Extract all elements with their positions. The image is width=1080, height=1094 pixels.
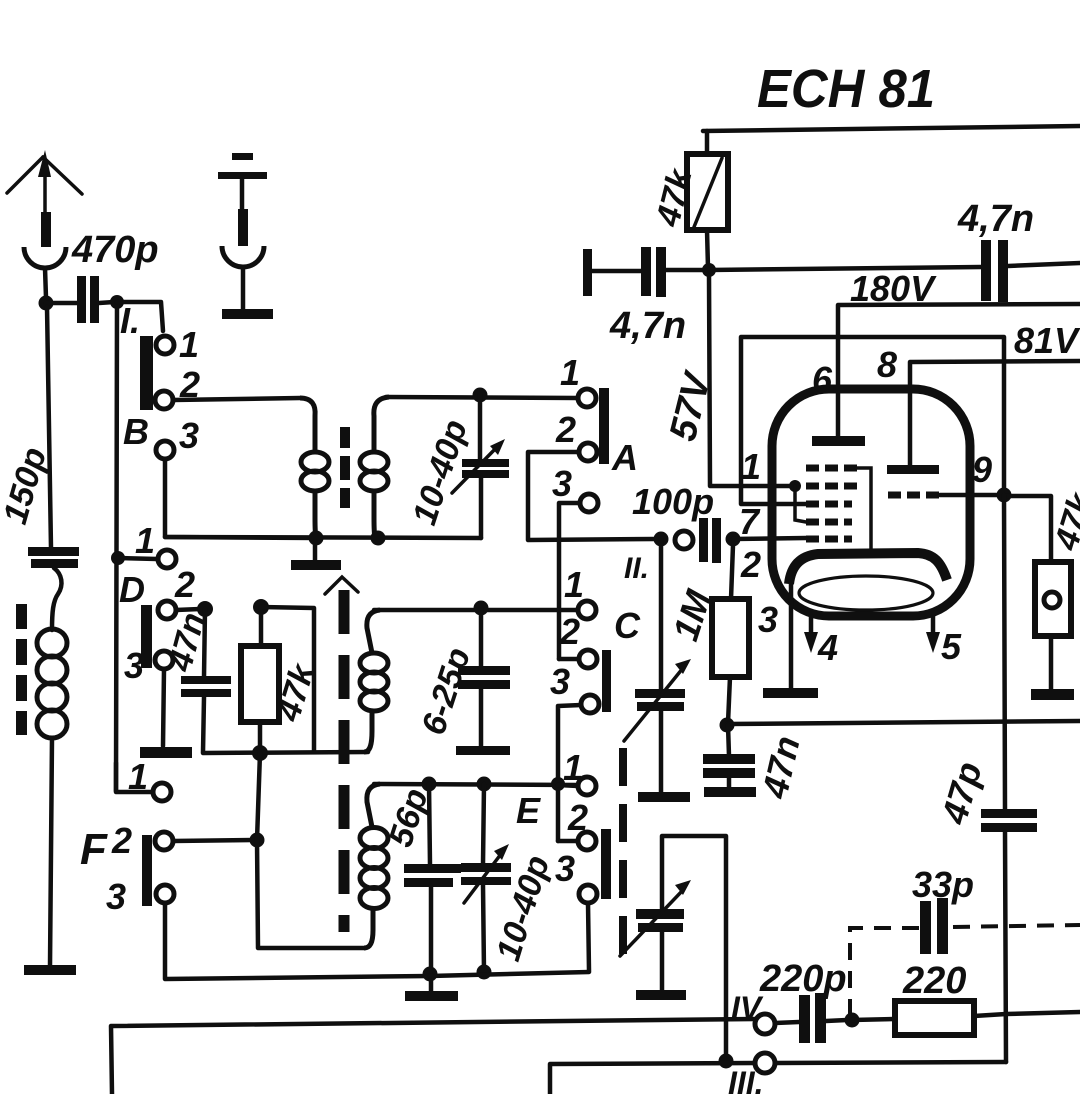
wire oscillator coil top [374,608,578,613]
wire D3 to ground [163,669,164,746]
switch contact E-2 [578,832,596,850]
tube grid g2 row [806,519,852,526]
inductor oscillator coil L2 [360,610,388,752]
capacitor 220p [775,993,847,1043]
resistor 47k (anode) [649,131,728,268]
wire B3 down to ground rail [165,459,316,538]
tube ECH81 envelope [772,389,970,616]
capacitor 47n (band filter) [161,609,231,752]
resistor 220 [852,960,1006,1035]
node D1 junction [111,551,125,565]
capacitor 56p [381,777,461,973]
svg-text:100p: 100p [632,481,714,522]
svg-text:6: 6 [812,359,833,400]
capacitor 4,7n (right) [957,198,1034,302]
terminal circle IV [755,1014,775,1034]
svg-text:2: 2 [555,409,576,450]
svg-text:3: 3 [179,415,199,456]
wire node to 4,7n right [709,267,981,270]
svg-text:D: D [119,569,145,610]
wire output right [1006,1012,1080,1014]
gang dashed line 1 [339,590,350,932]
wire A3 down to C2 [559,503,580,659]
trimmer capacitor 10-40p (band I) [405,395,509,538]
wire T1 bottom rail [165,537,481,538]
svg-text:8: 8 [877,344,897,385]
resistor 1M [665,584,749,723]
ground D3 [140,747,192,758]
wire III to output [775,1062,1006,1063]
capacitor 470p [71,229,159,323]
svg-text:4,7n: 4,7n [957,198,1034,240]
gang line arrow [325,577,358,594]
svg-text:7: 7 [739,501,761,542]
node T1 secondary bottom [371,531,386,546]
switch contact B-2 [155,391,173,409]
tube triode grid pin 9 [888,492,1004,499]
wire common to E3 [430,972,589,976]
node trimmer top [473,388,488,403]
node gang II top [654,532,669,547]
node T1 primary bottom [309,531,324,546]
node main junction [110,295,124,309]
wire III line [550,1063,755,1094]
wire E1 stub [558,785,578,786]
wire 1M top [731,545,733,599]
capacitor 4,7n (left) [609,247,686,347]
wire junction to D1 [118,558,157,559]
svg-text:220: 220 [902,960,966,1002]
gang dashed line 2 [619,748,627,955]
switch contact A-2 [579,443,597,461]
switch contact F-1 [153,783,171,801]
svg-text:ECH 81: ECH 81 [757,59,935,119]
capacitor 47n (AGC) [703,725,808,803]
heater pin 5 arrow [926,616,940,653]
node 1M bottom [720,718,735,733]
node 47n top [197,601,213,617]
switch contact A-3 [580,494,598,512]
wire D2 to 47n node [176,609,200,610]
switch contact F-3 [156,885,174,903]
switch contact D-2 [158,601,176,619]
svg-text:2: 2 [740,544,761,585]
tube grid g4 row [806,483,858,490]
wire F2 to oscillator rail [173,840,253,841]
inductor padder coil L3 [360,784,388,948]
node pin1 grid [789,480,801,492]
node pin 9 junction [997,488,1012,503]
switch A wiper bar [599,388,609,464]
svg-text:470p: 470p [71,229,159,271]
node 220p out [845,1013,860,1028]
svg-text:220p: 220p [759,958,847,1000]
antenna symbol [7,150,82,250]
svg-text:1: 1 [135,520,155,561]
wire F3 down to common rail [165,903,430,979]
wire B2 to transformer primary [173,398,300,400]
svg-text:2: 2 [559,611,580,652]
wire triode grid loop [741,337,1004,504]
switch contact B-3 [156,441,174,459]
wire padder coil top [374,784,578,785]
svg-text:2: 2 [174,564,195,605]
resistor 47k (triode grid) [1004,487,1080,700]
svg-text:1: 1 [564,564,584,605]
wire junction to 470p [46,301,77,306]
transformer T1 primary coil [300,398,329,538]
switch contact A-1 [578,389,596,407]
wire gang II branch [659,539,664,690]
wire 180V supply [838,304,1080,436]
svg-text:1: 1 [741,446,761,487]
terminal circle 100p input [675,531,693,549]
node E branch [551,777,565,791]
tube heptode anode pin 6 [812,359,865,446]
wire 4,7n right output [1008,263,1080,266]
svg-text:4: 4 [817,627,838,668]
capacitor 150p [0,307,79,568]
wire terminal to 4,7n [592,269,641,274]
svg-text:F: F [80,825,108,874]
switch contact C-3 [581,695,599,713]
svg-text:3: 3 [552,463,572,504]
wire 100p to grid g1 [733,538,806,539]
resistor 47k (osc grid) [241,607,323,751]
svg-text:9: 9 [972,449,992,490]
wire rail to coil3 bottom [257,753,365,948]
wire bottom long to IV [111,1019,755,1094]
node 56p bottom [423,967,438,982]
wire main left vertical [116,302,117,791]
terminal circle III [755,1053,775,1073]
wire g2-g4 strap [795,486,806,522]
inductor antenna coil [37,629,67,738]
tube heater [799,576,933,610]
svg-text:81V: 81V [1014,320,1080,361]
wire coil to ground [50,738,52,966]
tube triode anode pin 8 [877,344,939,474]
node anode junction [702,263,716,277]
wire A2 to oscillator section [528,452,655,540]
switch E wiper bar [601,829,611,899]
node 47k bottom [252,745,268,761]
switch I/B wiper bar [140,336,153,410]
core of antenna coil [16,604,27,735]
switch contact D-1 [158,550,176,568]
wire C2 stub [559,657,579,662]
capacitor 47p [933,757,1037,1062]
wire 4,7n to node [666,268,702,273]
svg-text:III.: III. [728,1065,764,1094]
svg-text:II.: II. [624,552,649,585]
svg-text:3: 3 [758,599,778,640]
wire to switch I contact 1 [117,302,163,331]
node antenna junction [39,296,54,311]
svg-text:E: E [516,790,541,831]
wire AVC line [727,721,1080,724]
ground pin 3 [763,688,818,698]
svg-text:3: 3 [555,848,575,889]
ground antenna coil [24,965,76,975]
svg-text:3: 3 [550,661,570,702]
transformer T1 secondary coil [360,397,389,538]
svg-text:1: 1 [128,756,148,797]
capacitor 33p [912,864,974,954]
tube cathode [789,553,947,584]
wire 81V supply [910,361,1080,465]
wire T1 secondary top to switch A1 [386,397,578,398]
svg-text:C: C [614,605,641,646]
switch contact I-1 [156,336,174,354]
terminal IF input bar [583,249,592,296]
wire E2 stub [558,839,578,844]
switch contact C-1 [578,601,596,619]
wire 150p to coil [52,568,61,630]
svg-text:1: 1 [560,352,580,393]
node F2 [250,833,265,848]
variable capacitor gang III [620,836,726,1061]
capacitor 100p [632,481,721,563]
wire oscillator ground rail [203,752,368,753]
wire top supply [703,126,1080,131]
switch contact C-2 [579,650,597,668]
switch contact D-3 [155,651,173,669]
switch contact E-1 [578,777,596,795]
antenna socket [24,247,66,268]
switch F wiper bar [142,835,152,906]
wire 470p to junction [99,302,114,303]
wire E3 down [588,903,589,971]
heater pin 4 arrow [804,616,818,653]
tube grid g3 row [806,501,852,508]
svg-text:A: A [611,437,638,478]
wire pin9 vertical [1004,495,1005,810]
svg-text:2: 2 [111,820,132,861]
wire 57V to grid pin 1 [709,276,793,486]
switch contact F-2 [155,832,173,850]
switch F wire from main vertical [116,763,153,792]
ground 56p [405,974,458,1001]
svg-text:B: B [123,411,149,452]
dashed wire 33p right [953,925,1080,927]
variable capacitor gang II [624,659,691,802]
wire C3 down to E branch [558,705,581,841]
node 100p out [726,532,741,547]
tube grid g1 row [806,536,852,543]
node 47k top [253,599,269,615]
svg-text:5: 5 [941,626,962,667]
switch C wiper bar [602,650,611,712]
node III junction [719,1054,734,1069]
trimmer capacitor 10-40p (osc) [461,777,557,980]
svg-text:3: 3 [106,876,126,917]
dashed wire 33p left [850,928,919,1016]
transformer T1 core [340,427,350,508]
ground T1 [291,541,341,570]
wire cathode pin 3 to ground [789,580,794,689]
svg-text:I.: I. [120,300,140,341]
switch contact E-3 [579,885,597,903]
tube shield grid row [806,468,871,552]
svg-text:4,7n: 4,7n [609,305,686,347]
wire antenna to junction [45,268,46,298]
trimmer capacitor 6-25p [414,601,510,756]
wire loop around 47k [261,607,314,751]
switch D wiper bar [141,605,152,668]
earth plug symbol [218,153,273,319]
svg-text:1: 1 [179,324,199,365]
